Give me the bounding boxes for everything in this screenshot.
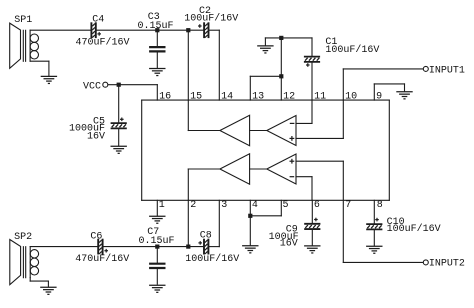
svg-text:0.15uF: 0.15uF <box>139 236 175 247</box>
svg-text:12: 12 <box>283 92 295 103</box>
svg-text:6: 6 <box>314 200 320 211</box>
svg-text:100uF/16V: 100uF/16V <box>184 13 238 25</box>
svg-text:14: 14 <box>221 92 233 103</box>
svg-text:0.15uF: 0.15uF <box>138 21 174 32</box>
svg-text:100uF/16V: 100uF/16V <box>325 44 379 56</box>
svg-text:SP2: SP2 <box>14 232 32 243</box>
svg-text:470uF/16V: 470uF/16V <box>76 36 130 48</box>
svg-text:C6: C6 <box>90 231 102 242</box>
svg-text:3: 3 <box>221 200 227 211</box>
svg-text:C8: C8 <box>200 231 212 242</box>
svg-text:5: 5 <box>283 200 289 211</box>
svg-text:15: 15 <box>190 92 202 103</box>
svg-text:C4: C4 <box>92 15 104 26</box>
svg-text:13: 13 <box>252 92 264 103</box>
svg-text:470uF/16V: 470uF/16V <box>75 253 129 265</box>
svg-text:8: 8 <box>377 200 383 211</box>
svg-text:100uF/16V: 100uF/16V <box>185 253 239 265</box>
svg-text:4: 4 <box>252 200 258 211</box>
svg-text:INPUT2: INPUT2 <box>429 259 465 270</box>
svg-text:16V: 16V <box>87 131 105 142</box>
svg-text:10: 10 <box>345 92 357 103</box>
svg-text:16: 16 <box>159 92 171 103</box>
svg-text:2: 2 <box>190 200 196 211</box>
svg-text:100uF/16V: 100uF/16V <box>387 223 441 235</box>
svg-text:INPUT1: INPUT1 <box>429 65 465 76</box>
svg-text:VCC: VCC <box>83 81 101 92</box>
svg-text:7: 7 <box>345 200 351 211</box>
svg-text:9: 9 <box>376 92 382 103</box>
svg-text:SP1: SP1 <box>14 15 32 26</box>
svg-text:1: 1 <box>159 200 165 211</box>
svg-text:16V: 16V <box>280 238 298 249</box>
svg-text:11: 11 <box>314 92 326 103</box>
